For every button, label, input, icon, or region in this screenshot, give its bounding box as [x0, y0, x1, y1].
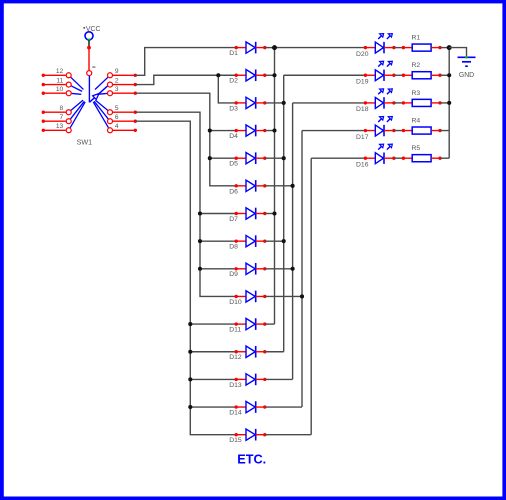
wire D7 cathode to bus A — [265, 213, 275, 215]
wire ground bus vertical — [448, 48, 450, 159]
junction bus B at D8 — [282, 239, 286, 243]
svg-text:D20: D20 — [356, 51, 369, 58]
svg-text:12: 12 — [56, 68, 64, 75]
wire R3 to ground bus — [440, 102, 449, 104]
junction pin3 net at D4 — [208, 129, 212, 133]
wire SW1 pin 5 to D10 anode — [135, 112, 236, 296]
SW1 contact pin 12 — [42, 68, 84, 89]
junction pin5 net at D8 — [198, 239, 202, 243]
LED D16 — [356, 144, 396, 168]
wire R4 to ground bus — [440, 130, 449, 132]
svg-text:D7: D7 — [229, 216, 238, 223]
svg-text:10: 10 — [56, 86, 64, 93]
SW1 contact pin 7 — [42, 101, 85, 123]
SW1 contact pin 4 — [93, 102, 137, 133]
wire branch to D12 anode — [190, 351, 236, 353]
ground GND — [458, 56, 476, 79]
junction ground bus at R2 — [447, 73, 451, 77]
svg-text:D18: D18 — [356, 106, 369, 113]
svg-text:D6: D6 — [229, 188, 238, 195]
svg-text:D11: D11 — [229, 327, 241, 334]
SW1 contact pin 5 — [95, 100, 137, 115]
SW1 contact pin 10 — [42, 86, 82, 96]
junction ground bus at R1 — [447, 45, 452, 50]
svg-text:D16: D16 — [356, 161, 369, 168]
LED D17 — [356, 117, 396, 141]
svg-text:9: 9 — [115, 68, 119, 75]
svg-text:D5: D5 — [229, 161, 238, 168]
wire bus E to LED D16 — [311, 157, 365, 159]
diode D11 — [229, 318, 266, 333]
junction pin5 net at D9 — [198, 267, 202, 271]
svg-text:D13: D13 — [229, 382, 242, 389]
wire bus D to LED D17 — [302, 130, 365, 132]
diode D10 — [229, 291, 266, 306]
diode D9 — [229, 263, 266, 278]
svg-text:D8: D8 — [229, 244, 238, 251]
wire bus B to LED D19 — [284, 74, 366, 76]
junction ground bus at R3 — [447, 101, 451, 105]
wire bus E vertical — [310, 158, 312, 435]
resistor R2 — [402, 62, 442, 79]
svg-text:7: 7 — [60, 114, 64, 121]
svg-text:ETC.: ETC. — [237, 452, 266, 466]
diode D8 — [229, 235, 266, 250]
junction bus B at D3 — [282, 101, 286, 105]
wire R5 to ground bus — [440, 157, 449, 159]
wire D19 cathode to R2 — [394, 74, 404, 76]
svg-text:R2: R2 — [412, 62, 421, 69]
wire bus B vertical — [283, 75, 285, 352]
svg-text:D1: D1 — [229, 50, 238, 57]
svg-text:D10: D10 — [229, 299, 242, 306]
switch SW1 — [87, 66, 108, 102]
svg-text:11: 11 — [56, 77, 63, 84]
wire D4 cathode to bus A — [265, 130, 275, 132]
wire R1 to ground bus — [440, 47, 449, 49]
diode D7 — [229, 208, 266, 223]
SW1 contact pin 6 — [94, 101, 137, 123]
resistor R3 — [402, 90, 442, 107]
junction pin3 net at D5 — [208, 156, 212, 160]
svg-text:SW1: SW1 — [77, 138, 93, 147]
svg-text:8: 8 — [60, 105, 64, 112]
resistor R5 — [402, 145, 442, 162]
diode D13 — [229, 374, 266, 389]
wire D6 cathode to bus C — [265, 185, 293, 187]
svg-text:D9: D9 — [229, 271, 238, 278]
junction bus D at D10 — [300, 294, 304, 298]
wire D15 cathode to bus E — [265, 434, 311, 436]
wire D20 cathode to R1 — [394, 47, 404, 49]
SW1 contact pin 11 — [42, 77, 82, 91]
junction bus A at D2 — [272, 73, 276, 77]
wire D2 cathode to bus A — [265, 74, 275, 76]
wire bus D vertical — [301, 131, 303, 408]
wire D5 cathode to bus B — [265, 157, 284, 159]
wire SW1 pin 6 to D15 anode — [135, 121, 236, 435]
wire D3 cathode to bus B — [265, 102, 284, 104]
wire branch to D3 anode — [218, 75, 236, 103]
svg-text:4: 4 — [115, 123, 119, 130]
SW1 contact pin 3 — [97, 86, 137, 96]
diode D6 — [229, 180, 266, 195]
svg-text:D15: D15 — [229, 437, 242, 444]
junction pin6 net at D14 — [188, 405, 192, 409]
LED D18 — [356, 89, 396, 113]
diode D12 — [229, 346, 266, 361]
junction bus C at D9 — [291, 267, 295, 271]
svg-text:R3: R3 — [412, 90, 421, 97]
diode D14 — [229, 401, 266, 416]
wire branch to D4 anode — [210, 130, 236, 132]
wire D18 cathode to R3 — [394, 102, 404, 104]
svg-text:5: 5 — [115, 105, 119, 112]
svg-text:6: 6 — [115, 114, 119, 121]
wire bus C to LED D18 — [293, 102, 366, 104]
junction pin5 net at D7 — [198, 211, 202, 215]
wire D14 cathode to bus D — [265, 406, 302, 408]
junction bus B at D5 — [282, 156, 286, 160]
SW1 contact pin 8 — [42, 100, 83, 115]
wire SW1 pin 9 to D1 anode — [135, 48, 236, 76]
diode D2 — [229, 69, 266, 84]
diode D15 — [229, 429, 266, 444]
LED D20 — [356, 34, 396, 58]
wire D12 cathode to bus B — [265, 351, 284, 353]
svg-text:D19: D19 — [356, 78, 369, 85]
svg-text:D14: D14 — [229, 409, 242, 416]
wire bus A to LED D20 — [275, 47, 366, 49]
svg-text:2: 2 — [115, 77, 119, 84]
svg-text:GND: GND — [459, 72, 474, 79]
SW1 contact pin 2 — [108, 77, 138, 87]
svg-text:D12: D12 — [229, 354, 242, 361]
wire D16 cathode to R5 — [394, 157, 404, 159]
junction bus A at D1 — [272, 45, 277, 50]
wire branch to D5 anode — [210, 157, 236, 159]
wire D9 cathode to bus C — [265, 268, 293, 270]
wire branch to D13 anode — [190, 378, 236, 380]
wire VCC to SW1 pole — [87, 40, 91, 70]
svg-text:3: 3 — [115, 86, 119, 93]
wire branch to D11 anode — [190, 323, 236, 325]
wire D1 cathode to bus A — [265, 47, 275, 49]
diode D4 — [229, 125, 266, 140]
wire D8 cathode to bus B — [265, 240, 284, 242]
wire branch to D8 anode — [200, 240, 236, 242]
diode D1 — [229, 42, 266, 57]
wire branch to D7 anode — [200, 213, 236, 215]
junction bus A at D7 — [272, 211, 276, 215]
diode D5 — [229, 152, 266, 167]
wire D17 cathode to R4 — [394, 130, 404, 132]
svg-text:R5: R5 — [412, 145, 421, 152]
svg-text:R1: R1 — [412, 35, 421, 42]
wire bus A vertical — [274, 48, 276, 325]
svg-text:13: 13 — [56, 123, 64, 130]
SW1 contact pin 9 — [95, 68, 137, 89]
svg-text:D17: D17 — [356, 134, 369, 141]
wire branch to D14 anode — [190, 406, 236, 408]
junction bus A at D4 — [272, 129, 276, 133]
junction pin2 net at D2 — [216, 73, 220, 77]
svg-text:D2: D2 — [229, 78, 238, 85]
junction pin6 net at D11 — [188, 322, 192, 326]
wire SW1 pin 3 to D6 anode — [135, 93, 236, 186]
svg-text:R4: R4 — [412, 117, 421, 124]
junction pin6 net at D12 — [188, 350, 192, 354]
resistor R4 — [402, 117, 442, 134]
SW1 contact pin 13 — [42, 102, 86, 133]
wire ground bus to GND symbol — [449, 48, 466, 58]
junction bus C at D6 — [291, 184, 295, 188]
diode D3 — [229, 97, 266, 112]
resistor R1 — [402, 35, 442, 52]
wire branch to D9 anode — [200, 268, 236, 270]
power symbol VCC — [83, 26, 100, 41]
wire SW1 pin 2 to D2 anode — [135, 75, 236, 84]
LED D19 — [356, 61, 396, 85]
wire D11 cathode to bus A — [265, 323, 275, 325]
wire R2 to ground bus — [440, 74, 449, 76]
wire D13 cathode to bus C — [265, 378, 293, 380]
svg-text:D3: D3 — [229, 105, 238, 112]
junction pin6 net at D13 — [188, 377, 192, 381]
wire bus C vertical — [292, 103, 294, 380]
svg-text:D4: D4 — [229, 133, 238, 140]
wire D10 cathode to bus D — [265, 295, 302, 297]
